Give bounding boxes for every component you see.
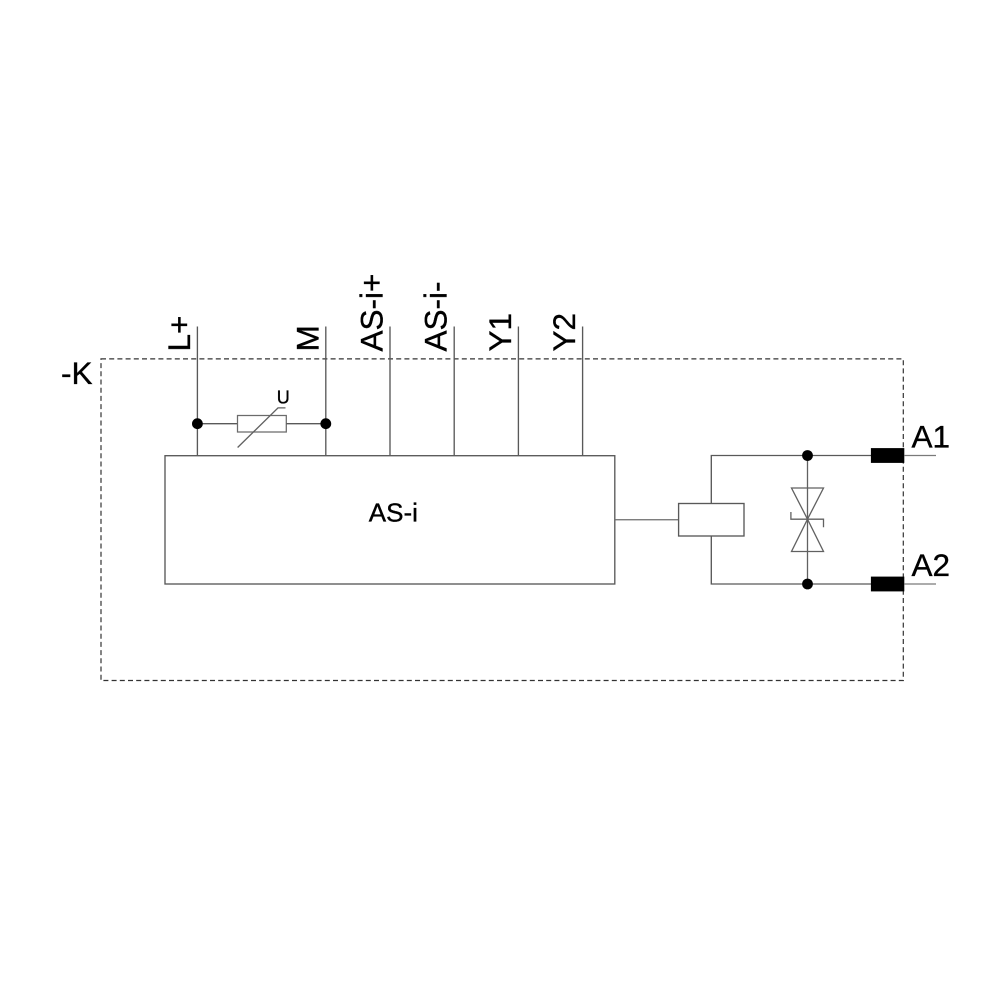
wire pin M: [325, 327, 327, 456]
terminal A2: [871, 577, 904, 592]
wire A2 tail: [904, 583, 936, 585]
wire varistor to M: [286, 423, 326, 425]
wire A1 tail: [904, 455, 936, 457]
svg-text:M: M: [289, 325, 325, 351]
wire AS-i box to coil K1: [615, 519, 679, 521]
wire pin L+: [196, 327, 198, 456]
AS-i module U1 box: [165, 456, 615, 584]
wire coil bottom to node A2 rail: [711, 536, 871, 584]
wire coil top to node A1 rail: [711, 456, 871, 504]
svg-text:L+: L+: [161, 316, 197, 352]
wire pin Y2: [582, 327, 584, 456]
svg-text:Y2: Y2: [546, 313, 582, 352]
relay coil K1: [679, 504, 744, 537]
junction node A2: [802, 579, 813, 590]
wire pin AS-i-: [453, 327, 455, 456]
svg-text:AS-i+: AS-i+: [354, 274, 390, 352]
svg-text:-K: -K: [61, 355, 93, 391]
wire L+ to varistor: [197, 423, 237, 425]
wire pin AS-i+: [389, 327, 391, 456]
junction on L+: [192, 418, 203, 429]
enclosure -K dashed boundary: [101, 359, 903, 681]
svg-text:AS-i-: AS-i-: [418, 282, 454, 352]
junction node A1: [802, 450, 813, 461]
svg-text:A1: A1: [912, 418, 951, 454]
wire pin Y1: [517, 327, 519, 456]
svg-text:Y1: Y1: [482, 313, 518, 352]
junction on M: [320, 418, 331, 429]
svg-text:U: U: [277, 387, 290, 407]
varistor U body: [238, 408, 287, 448]
svg-text:AS-i: AS-i: [369, 497, 418, 527]
terminal A1: [871, 448, 904, 463]
suppressor diode V1 (bidirectional TVS): [791, 456, 824, 585]
svg-text:A2: A2: [912, 547, 951, 583]
